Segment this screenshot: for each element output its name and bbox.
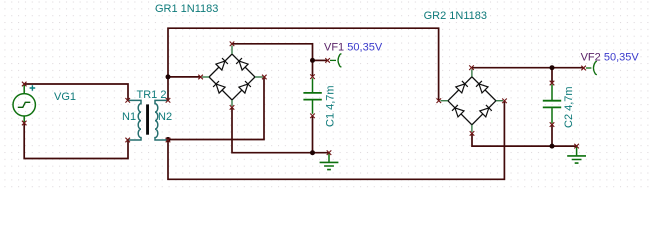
ground 1	[320, 154, 339, 170]
capacitor C2	[543, 84, 561, 123]
svg-text:C2 4,7m: C2 4,7m	[563, 86, 575, 128]
pin GR1 bottom	[230, 105, 235, 110]
diode GR1 bottom-right	[239, 81, 251, 93]
label C2 4,7m	[563, 86, 575, 128]
wire GR2 minus to ground	[472, 133, 577, 146]
pin VG1 +	[22, 82, 27, 87]
pin TR1 secondary top	[166, 98, 171, 103]
node junction VF2	[550, 65, 555, 70]
transformer TR1 winding N2	[155, 100, 168, 140]
pin C1 top	[310, 74, 315, 79]
pin TR1 primary bottom	[125, 138, 130, 143]
label GR1 1N1183	[155, 3, 218, 15]
diode GR1 top-left	[216, 58, 228, 70]
svg-text:50,35V: 50,35V	[347, 42, 383, 54]
wire GR1 plus rail to C1	[232, 44, 313, 77]
wire TR1 secondary bottom long loop to GR2 right pin	[168, 101, 504, 179]
GR1 leads	[202, 46, 263, 107]
svg-text:50,35V: 50,35V	[604, 52, 640, 64]
transformer TR1 winding N1	[128, 100, 141, 140]
voltage source VG1	[13, 85, 35, 123]
node junction secondary top	[166, 74, 171, 79]
bridge rectifier GR2 diamond	[448, 77, 496, 125]
label C1 4,7m	[325, 85, 337, 127]
voltage pin VF1 probe	[330, 54, 341, 68]
pin C2 bottom	[550, 122, 555, 127]
transformer TR1 core	[146, 104, 149, 134]
pin VF2	[581, 66, 586, 71]
wire node to GR1 left pin	[168, 76, 201, 78]
pin GR1 right	[262, 75, 267, 80]
wire VF1 probe branch	[313, 59, 328, 61]
svg-text:C1 4,7m: C1 4,7m	[325, 85, 337, 127]
pin GR2 top	[469, 65, 474, 70]
label VG1	[54, 91, 76, 103]
node junction C2 ground	[550, 144, 555, 149]
diode GR2 top-left	[456, 81, 468, 93]
node junction secondary bottom	[166, 137, 171, 142]
node junction C1 ground	[310, 150, 315, 155]
label VF2 value	[604, 52, 640, 64]
wire TR1 secondary top up and right to GR2 left	[168, 28, 439, 100]
svg-text:N1: N1	[122, 111, 136, 123]
label TR1 2	[137, 89, 167, 101]
wire TR1 secondary bottom to GR1 right pin	[168, 77, 264, 139]
label VF2	[581, 52, 601, 64]
pin VF1	[325, 58, 330, 63]
svg-text:VF1: VF1	[324, 42, 344, 54]
label VF1	[324, 42, 344, 54]
pin TR1 secondary bottom	[166, 138, 171, 143]
ground 2	[567, 147, 586, 163]
pin GR2 right	[502, 99, 507, 104]
diode GR1 top-right	[236, 58, 248, 70]
label VF1 value	[347, 42, 383, 54]
svg-text:N2: N2	[158, 111, 172, 123]
pin GR2 bottom	[470, 131, 475, 136]
diode GR2 top-right	[476, 81, 488, 93]
wire C1 bottom	[312, 116, 314, 153]
svg-text:TR1 2: TR1 2	[137, 89, 167, 101]
wire VG1 top to TR1 primary top	[24, 84, 128, 100]
wire GR2 plus rail to VF2	[472, 67, 584, 69]
pin ground 1	[327, 150, 332, 155]
svg-text:VG1: VG1	[54, 91, 76, 103]
pin VG1 -	[22, 121, 27, 126]
pin ground 2	[574, 144, 579, 149]
pin C2 top	[550, 81, 555, 86]
pin GR2 left	[437, 98, 442, 103]
wire VG1 bottom loop to TR1 primary bottom	[24, 123, 128, 158]
label N1	[122, 111, 136, 123]
diode GR2 bottom-left	[452, 105, 464, 117]
diode GR2 bottom-right	[480, 105, 492, 117]
wire GR1 minus to ground	[232, 107, 329, 152]
pin GR1 left	[198, 75, 203, 80]
wire C2 top	[551, 68, 553, 83]
capacitor C1	[303, 78, 321, 114]
bridge rectifier GR1 diamond	[209, 54, 255, 100]
node junction VF1	[310, 58, 315, 63]
svg-text:GR2 1N1183: GR2 1N1183	[424, 10, 487, 22]
pin C1 bottom	[310, 114, 315, 119]
wire C2 bottom	[551, 125, 553, 147]
voltage pin VF2 probe	[586, 61, 597, 75]
svg-text:VF2: VF2	[581, 52, 601, 64]
pin TR1 primary top	[125, 98, 130, 103]
pin GR1 top	[230, 42, 235, 47]
label N2	[158, 111, 172, 123]
diode GR1 bottom-left	[213, 81, 225, 93]
svg-text:GR1 1N1183: GR1 1N1183	[155, 3, 218, 15]
GR2 leads	[441, 69, 504, 132]
label GR2 1N1183	[424, 10, 487, 22]
